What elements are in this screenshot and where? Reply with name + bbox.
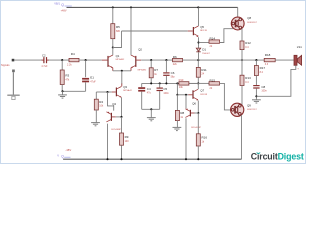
wire R17 top — [255, 60, 257, 65]
svg-text:Q6: Q6 — [192, 102, 196, 106]
wire R3 to ground node — [61, 85, 63, 92]
wire R14 row left — [199, 42, 210, 44]
capacitor C8 — [253, 85, 259, 86]
junction C6 tap — [165, 59, 167, 61]
svg-text:E1: E1 — [90, 76, 94, 80]
junction rail Q6 emitter — [185, 158, 187, 160]
capacitor C5 — [157, 88, 163, 89]
svg-text:CircuitDigest: CircuitDigest — [251, 151, 304, 161]
wire R2 to ground — [95, 110, 97, 122]
wire R2 top — [95, 92, 97, 99]
transistor Q6 — [190, 110, 191, 117]
svg-text:100: 100 — [125, 140, 130, 143]
resistor R8 — [175, 110, 179, 120]
svg-text:R7: R7 — [154, 68, 158, 72]
wire input to C2 — [14, 59, 42, 61]
junction rail-Q5 collector — [197, 6, 199, 8]
junction C6/row — [165, 82, 167, 84]
wire bottom rail — [63, 158, 241, 160]
svg-text:56p: 56p — [171, 76, 176, 79]
junction Q6 base node — [197, 112, 199, 114]
svg-text:R10: R10 — [179, 78, 184, 82]
junction C2/R3/R4 — [61, 59, 63, 61]
svg-text:Q: Q — [61, 3, 64, 7]
wire Q1 collector — [112, 48, 114, 56]
transistor Q9 — [231, 103, 244, 116]
diode D1 — [196, 48, 200, 51]
border frame — [1, 1, 306, 164]
ground zobel — [252, 99, 261, 101]
junction Q4 base/R9 — [120, 116, 122, 118]
wire C4 top — [141, 83, 143, 87]
wire Q2 emitter — [130, 68, 132, 71]
svg-text:R8: R8 — [180, 111, 184, 115]
transistor Q4 — [111, 113, 112, 121]
svg-text:MJE3055T: MJE3055T — [247, 22, 257, 24]
wire ground stub input cell — [62, 91, 64, 95]
wire R7 top — [150, 60, 152, 68]
svg-text:Q4: Q4 — [112, 102, 116, 106]
resistor R2 — [94, 99, 98, 110]
wire R14 to Q8 base — [220, 29, 233, 43]
wire Q4 emitter down — [107, 124, 109, 160]
junction output node R12 — [241, 59, 243, 61]
junction rail-Q2 collector — [130, 6, 132, 8]
wire R11 top — [197, 60, 199, 67]
resistor R12 — [240, 41, 244, 50]
svg-text:Q3: Q3 — [123, 85, 127, 89]
wire R9 top — [121, 117, 123, 133]
resistor R13 — [240, 75, 244, 85]
node A junction (Q1 collector / VAS tap) — [112, 46, 114, 48]
wire C2 to R4 node — [49, 59, 69, 61]
junction rail R9 — [120, 158, 122, 160]
junction R3 ground node — [61, 90, 63, 92]
svg-text:47u: 47u — [147, 92, 152, 95]
junction emitter bus — [121, 70, 123, 72]
junction D1/R11 column — [197, 59, 199, 61]
svg-text:BD139: BD139 — [200, 30, 207, 32]
wire R13 to Q9 — [241, 86, 243, 106]
svg-text:47uF: 47uF — [90, 81, 96, 84]
junction C5/row — [159, 82, 161, 84]
svg-text:VB/1: VB/1 — [54, 2, 60, 6]
ground input cell — [58, 94, 67, 96]
ground R2 — [91, 122, 100, 124]
wire Q7 emitter down — [197, 101, 199, 114]
wire E1 top — [85, 60, 87, 77]
resistor R17 — [254, 66, 258, 76]
svg-text:MPSA92: MPSA92 — [138, 68, 147, 71]
svg-text:680: 680 — [116, 30, 121, 33]
wire rail corner to Q8 — [237, 7, 239, 17]
wire E1 bottom — [85, 82, 87, 91]
transistor Q3 — [116, 88, 117, 97]
wire Q5 collector — [198, 7, 200, 26]
wire R6 to bias node — [183, 59, 237, 61]
svg-text:BD140BP: BD140BP — [191, 127, 201, 129]
svg-text:R9: R9 — [125, 135, 129, 139]
junction R7 tap — [150, 59, 152, 61]
svg-text:C4: C4 — [147, 87, 151, 91]
resistor R9 — [120, 133, 124, 145]
wire R10 drop — [176, 83, 178, 94]
wire speaker return — [256, 65, 295, 96]
svg-text:R18: R18 — [265, 53, 271, 57]
wire R11 bottom — [197, 77, 199, 83]
junction zobel ground / speaker return — [255, 95, 257, 97]
wire Q3 collector diag — [121, 84, 123, 87]
junction rail Q4 emitter — [106, 158, 108, 160]
svg-text:V: V — [57, 154, 59, 158]
junction cap join — [150, 108, 152, 110]
svg-text:Q5: Q5 — [200, 25, 204, 29]
wire R10 row — [189, 82, 198, 84]
capacitor C6 — [163, 72, 169, 73]
wire cap join — [142, 108, 160, 110]
wire Q6 base col to R16 — [197, 113, 199, 134]
wire node A to Q5 base riser — [113, 31, 122, 48]
svg-text:+48V: +48V — [61, 10, 67, 13]
wire Q4 base — [112, 116, 116, 118]
svg-text:Signals: Signals — [1, 63, 10, 67]
wire R15 to Q9 base — [220, 83, 231, 110]
wire Q3 emitter col — [121, 98, 123, 117]
junction R4/E1 — [85, 59, 87, 61]
wire Q5 emitter to D1 — [198, 37, 200, 48]
svg-text:C8: C8 — [261, 85, 265, 89]
svg-text:R4: R4 — [71, 52, 75, 56]
svg-text:R17: R17 — [260, 66, 266, 70]
svg-text:R13: R13 — [245, 76, 251, 80]
wire C6 bottom — [165, 76, 167, 84]
resistor R3 — [60, 70, 64, 85]
svg-text:R5: R5 — [116, 25, 120, 29]
wire Q7 base row — [177, 94, 188, 96]
wire R8 to ground — [176, 121, 178, 128]
wire D1 to main row — [198, 52, 200, 60]
svg-text:R3: R3 — [65, 74, 69, 78]
wire node to R3 — [61, 60, 63, 70]
svg-text:-48V: -48V — [65, 148, 71, 152]
junction R10 drop — [176, 82, 178, 84]
wire R7 bottom — [150, 78, 152, 84]
resistor R7 — [149, 68, 153, 78]
input jack pin — [12, 70, 15, 73]
wire C4 bottom — [141, 92, 143, 110]
wire output to R13 — [241, 60, 243, 75]
svg-text:2.2k: 2.2k — [67, 64, 72, 67]
wire Q2 base to feedback row — [136, 59, 141, 61]
junction R7/row — [150, 82, 152, 84]
wire C8 to ground — [255, 89, 257, 100]
ground R8 — [173, 126, 182, 128]
svg-text:4.7uF: 4.7uF — [41, 65, 48, 68]
svg-text:R12: R12 — [245, 41, 251, 45]
transistor Q1 — [107, 56, 108, 67]
junction R14 tap — [197, 41, 199, 43]
wire C5 bottom — [159, 91, 161, 109]
resistor R11 — [196, 67, 200, 77]
wire C6 top — [165, 60, 167, 72]
wire R8 top — [176, 95, 178, 111]
junction Q6 collector tap — [185, 94, 187, 96]
wire Q6 collector riser — [185, 95, 187, 109]
wire Q2 collector — [130, 7, 132, 55]
svg-text:C2: C2 — [42, 54, 46, 58]
wire Q9 collector to rail — [241, 115, 243, 159]
wire R16 to rail — [197, 146, 199, 159]
svg-text:C5: C5 — [163, 87, 167, 91]
transistor Q5 — [193, 27, 194, 35]
junction bias node — [197, 82, 199, 84]
junction rail-R5 — [112, 6, 114, 8]
wire ground stub caps — [150, 109, 152, 117]
wire feedback lower row — [142, 82, 199, 84]
svg-text:Q7: Q7 — [200, 89, 204, 93]
svg-text:C6: C6 — [171, 71, 175, 75]
junction rail R16 — [197, 158, 199, 160]
wire top power rail — [67, 6, 238, 8]
resistor R5 — [111, 24, 115, 39]
wire Q8 emitter to R12 — [241, 29, 243, 41]
wire R9 to rail — [121, 145, 123, 159]
svg-text:MPSA42: MPSA42 — [123, 89, 132, 92]
svg-text:100n: 100n — [163, 92, 169, 95]
svg-text:100n: 100n — [261, 90, 267, 93]
wire R18 to speaker — [275, 59, 294, 61]
wire Q6 base — [191, 112, 195, 114]
svg-text:R16: R16 — [202, 136, 208, 140]
wire Q4 collector elbow — [108, 92, 114, 111]
svg-text:Q1: Q1 — [116, 54, 120, 58]
wire C5 top — [159, 83, 161, 87]
capacitor C4 — [138, 87, 145, 89]
svg-text:R11: R11 — [201, 68, 207, 72]
junction zobel tap — [255, 59, 257, 61]
svg-text:MJE2955T: MJE2955T — [247, 109, 257, 111]
capacitor E1 — [82, 78, 89, 80]
svg-text:BC546BP: BC546BP — [111, 129, 121, 131]
svg-text:Q8: Q8 — [247, 16, 251, 20]
resistor R16 — [196, 134, 200, 146]
transistor Q8 — [231, 17, 244, 30]
svg-text:LS1: LS1 — [297, 45, 302, 49]
svg-text:1N4007: 1N4007 — [202, 53, 210, 55]
svg-text:D1: D1 — [202, 48, 206, 52]
input terminal — [12, 59, 15, 62]
svg-text:Q2: Q2 — [138, 47, 142, 51]
wire rail to R5 — [112, 7, 114, 23]
wire R15 row left — [198, 82, 209, 84]
svg-text:MPSA92: MPSA92 — [116, 58, 125, 61]
wire R4 to Q1 base node — [79, 59, 102, 61]
wire R5 to node A — [112, 39, 114, 48]
wire tail down to Q3 — [121, 71, 123, 85]
wire output node to zobel — [237, 59, 265, 61]
wire R17 to C8 — [255, 76, 257, 86]
wire Q7 collector — [197, 83, 199, 89]
wire R12 to output node — [241, 50, 243, 61]
transistor Q2 — [135, 56, 136, 67]
transistor Q7 — [192, 90, 193, 99]
wire Q5 base row — [122, 30, 188, 32]
junction Q7 base tee — [176, 94, 178, 96]
svg-text:BD139: BD139 — [200, 94, 207, 96]
ground feedback caps — [147, 117, 156, 119]
junction Q4 drop — [106, 91, 108, 93]
svg-text:R2: R2 — [99, 100, 103, 104]
svg-text:Q9: Q9 — [247, 103, 251, 107]
wire Q6 emitter down — [185, 118, 187, 159]
wire emitter bus — [113, 70, 131, 72]
wire R2 corner row — [96, 91, 112, 93]
wire Q1 emitter — [112, 68, 114, 71]
